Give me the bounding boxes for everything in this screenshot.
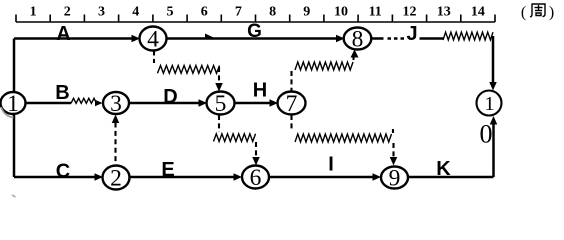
svg-text:3: 3 <box>110 91 122 117</box>
svg-text:H: H <box>253 80 267 102</box>
svg-text:9: 9 <box>303 5 310 20</box>
svg-text:10: 10 <box>334 5 348 20</box>
svg-text:6: 6 <box>201 5 208 20</box>
svg-text:K: K <box>436 158 451 180</box>
svg-text:14: 14 <box>471 5 485 20</box>
svg-text:A: A <box>56 23 70 45</box>
svg-text:7: 7 <box>286 91 298 117</box>
svg-text:2: 2 <box>110 165 122 191</box>
svg-text:12: 12 <box>403 5 417 20</box>
svg-text:8: 8 <box>269 5 276 20</box>
svg-text:1: 1 <box>30 5 37 20</box>
svg-text:I: I <box>328 154 334 176</box>
svg-text:B: B <box>55 82 69 104</box>
svg-text:C: C <box>56 161 70 183</box>
svg-text:7: 7 <box>235 5 242 20</box>
svg-text:4: 4 <box>147 26 159 52</box>
svg-text:E: E <box>161 159 174 181</box>
svg-text:0: 0 <box>480 120 493 149</box>
svg-text:D: D <box>163 86 177 108</box>
svg-text:13: 13 <box>437 5 451 20</box>
svg-text:3: 3 <box>98 5 105 20</box>
svg-text:1: 1 <box>484 93 494 115</box>
svg-text:J: J <box>406 23 417 45</box>
svg-text:4: 4 <box>132 5 139 20</box>
svg-text:G: G <box>247 21 262 42</box>
svg-text:9: 9 <box>389 165 401 191</box>
svg-text:5: 5 <box>167 5 174 20</box>
svg-text:6: 6 <box>250 165 262 191</box>
svg-text:5: 5 <box>215 91 227 117</box>
svg-text:(: ( <box>521 4 526 21</box>
svg-text:2: 2 <box>64 5 71 20</box>
svg-text:1: 1 <box>7 91 19 117</box>
svg-text:): ) <box>549 4 554 21</box>
svg-text:11: 11 <box>369 5 382 20</box>
svg-text:8: 8 <box>352 26 364 52</box>
